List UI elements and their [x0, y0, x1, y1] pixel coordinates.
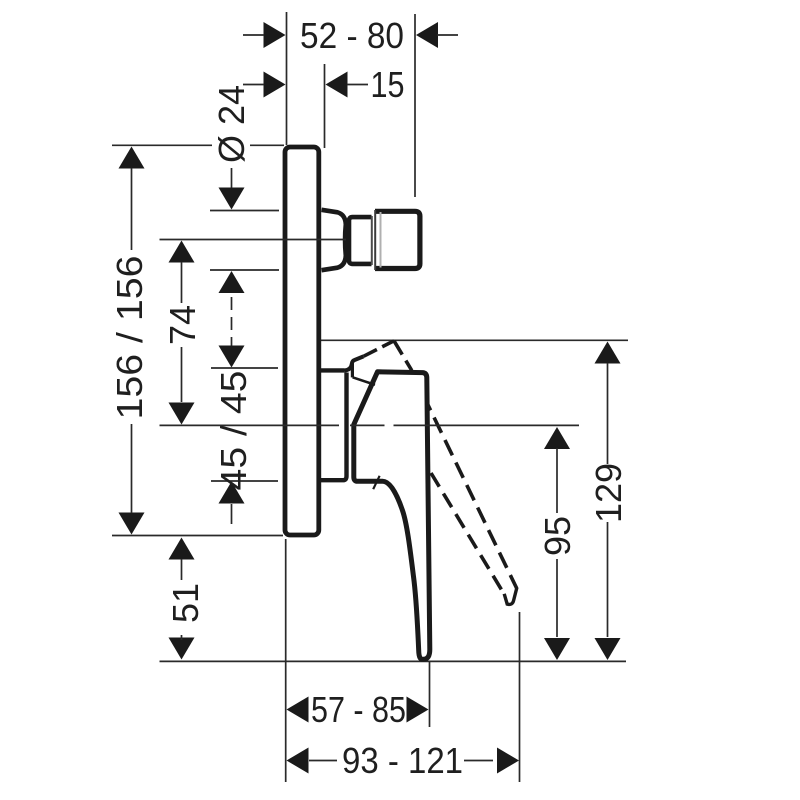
handle body with lever pointing down — [354, 372, 430, 660]
dimension 74 : knob axis to handle axis — [169, 241, 195, 263]
extension line: knob bottom — [210, 269, 279, 271]
extension line: handle top level — [320, 339, 628, 341]
dashed-position underside stub — [353, 377, 375, 385]
extension line: wall plate bottom level — [112, 535, 283, 537]
dimension 95 : handle axis to bottom — [544, 427, 570, 449]
extension line: 45/45 upper — [211, 367, 278, 369]
svg-text:74: 74 — [162, 305, 203, 345]
svg-text:45 / 45: 45 / 45 — [213, 371, 254, 491]
extension line: plate front below — [285, 539, 287, 782]
knob cone at plate — [322, 210, 346, 270]
svg-text:Ø 24: Ø 24 — [211, 85, 252, 163]
tick mark on handle underside curve — [373, 476, 379, 489]
svg-text:93 - 121: 93 - 121 — [342, 740, 463, 781]
handle pivot nub — [345, 356, 364, 370]
extension line: wall plate top level — [112, 144, 284, 146]
extension line: bottom reference — [160, 660, 627, 662]
extension line: handle end below — [429, 662, 431, 727]
svg-text:51: 51 — [165, 583, 206, 623]
svg-text:57 - 85: 57 - 85 — [311, 689, 406, 730]
dashed handle outline: right edge raised position — [394, 341, 412, 371]
centre axis line of handle — [160, 424, 580, 426]
knob head — [373, 209, 420, 269]
svg-text:52 - 80: 52 - 80 — [300, 15, 404, 56]
dimension 52 - 80 : wall depth range — [264, 22, 286, 48]
dashed handle outline: left edge raised position — [364, 341, 395, 357]
svg-text:15: 15 — [371, 64, 405, 105]
knob ring — [347, 213, 373, 268]
extension line: knob top — [210, 210, 279, 212]
svg-text:156 / 156: 156 / 156 — [109, 256, 150, 420]
dimension 57 - 85 : handle reach — [287, 697, 309, 723]
knob head seam — [380, 212, 382, 268]
extension line: wall line left (x=286.5) — [286, 12, 288, 145]
svg-text:129: 129 — [588, 463, 629, 523]
dimension 51 : plate bottom to handle end — [169, 538, 195, 560]
dimension 45 / 45 : handle positions — [219, 346, 245, 368]
dashed lever upper line — [412, 373, 517, 589]
extension line: 52-80 right (x=415) — [414, 14, 416, 197]
dimension 156 / 156 : overall plate height — [119, 147, 145, 169]
dimension 129 : handle top to bottom — [595, 342, 621, 364]
dashed lever lower line — [431, 473, 504, 594]
extension line: 45/45 lower — [211, 480, 278, 482]
dashed lever end cap — [504, 588, 517, 605]
dimension 93 - 121 : lever reach — [287, 748, 309, 774]
wall plate (escutcheon) — [285, 147, 319, 535]
svg-text:95: 95 — [537, 516, 578, 556]
centre axis line of knob — [160, 239, 347, 241]
handle hub (sleeve) — [321, 370, 347, 480]
extension line: raised lever end below — [519, 612, 521, 782]
dimension 15 — [324, 64, 326, 148]
